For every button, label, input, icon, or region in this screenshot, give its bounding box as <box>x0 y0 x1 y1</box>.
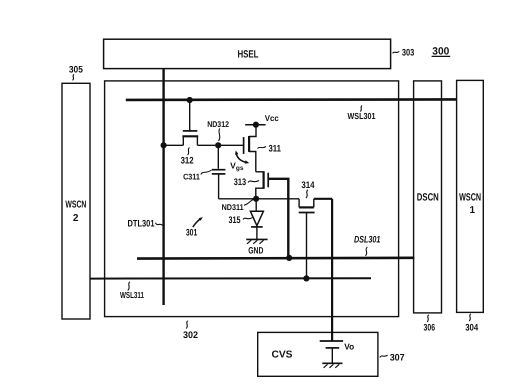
svg-text:315: 315 <box>229 215 242 226</box>
svg-text:ND311: ND311 <box>222 202 244 212</box>
svg-text:WSL311: WSL311 <box>120 290 144 300</box>
svg-text:ND312: ND312 <box>207 119 229 129</box>
svg-text:305: 305 <box>69 65 84 76</box>
svg-text:DSCN: DSCN <box>417 191 439 203</box>
svg-text:306: 306 <box>424 322 436 333</box>
svg-text:304: 304 <box>465 323 479 334</box>
svg-text:312: 312 <box>181 156 194 167</box>
svg-text:Vo: Vo <box>344 341 354 351</box>
svg-text:311: 311 <box>268 143 281 154</box>
svg-text:GND: GND <box>248 245 263 255</box>
svg-text:Vcc: Vcc <box>265 113 279 123</box>
svg-text:300: 300 <box>432 45 449 57</box>
svg-text:gs: gs <box>236 165 244 172</box>
svg-text:301: 301 <box>186 227 198 238</box>
svg-text:DTL301: DTL301 <box>128 218 156 229</box>
svg-text:WSCN: WSCN <box>65 200 86 211</box>
svg-text:C311: C311 <box>183 172 200 182</box>
svg-text:313: 313 <box>234 177 246 188</box>
svg-text:1: 1 <box>470 205 476 216</box>
svg-text:WSL301: WSL301 <box>348 111 376 121</box>
svg-text:314: 314 <box>301 180 315 191</box>
svg-text:307: 307 <box>390 352 405 363</box>
svg-text:303: 303 <box>402 48 415 59</box>
svg-text:302: 302 <box>183 330 198 341</box>
svg-text:HSEL: HSEL <box>238 48 259 60</box>
svg-text:CVS: CVS <box>272 350 293 361</box>
svg-text:2: 2 <box>73 213 79 224</box>
svg-text:DSL301: DSL301 <box>354 234 381 245</box>
svg-text:WSCN: WSCN <box>459 191 481 203</box>
